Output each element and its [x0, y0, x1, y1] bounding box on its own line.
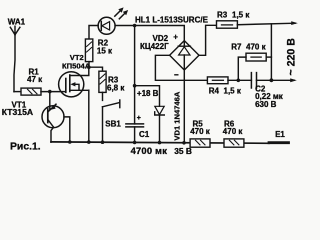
- resistor R4: [207, 77, 228, 84]
- svg-text:E1: E1: [275, 130, 285, 139]
- zener diode VD1: [155, 106, 165, 115]
- svg-text:470 к: 470 к: [223, 127, 244, 136]
- bottom rail: [51, 142, 269, 143]
- svg-text:HL1 L-1513SURC/E: HL1 L-1513SURC/E: [135, 15, 209, 24]
- transistor VT1: [42, 104, 64, 128]
- node R7 left junction dot: [237, 79, 241, 83]
- svg-text:+: +: [173, 32, 178, 41]
- wire top corner to R2: [89, 26, 98, 40]
- wire R3 to SB1: [102, 92, 104, 100]
- wire drain node to R3: [89, 67, 103, 71]
- wire R1 to node A: [41, 91, 66, 93]
- wire VT2 source down to rail: [88, 90, 90, 142]
- svg-text:КП504А: КП504А: [62, 61, 91, 70]
- svg-text:VD1 1N4746A: VD1 1N4746A: [172, 91, 181, 140]
- svg-text:1,5 к: 1,5 к: [232, 11, 250, 20]
- antenna WA1: [10, 26, 20, 91]
- wire zener to rail: [159, 115, 161, 143]
- svg-text:R4: R4: [209, 87, 220, 96]
- electrode E1: [269, 141, 289, 144]
- wire R2 to drain node: [88, 62, 90, 68]
- wire R8 to mains arrow: [237, 23, 295, 25]
- node drain junction dot: [87, 65, 91, 69]
- wire R7 left lead: [238, 57, 246, 80]
- wire antenna to R1: [14, 91, 21, 93]
- transistor VT2: [59, 67, 89, 97]
- svg-text:4700 мк: 4700 мк: [131, 145, 168, 156]
- svg-text:6,8 к: 6,8 к: [107, 83, 125, 92]
- node A junction dot: [48, 90, 52, 94]
- svg-text:470 к: 470 к: [190, 127, 211, 136]
- pushbutton SB1: [103, 100, 120, 108]
- svg-text:SB1: SB1: [105, 119, 121, 128]
- svg-text:~ 220 В: ~ 220 В: [286, 38, 298, 76]
- svg-text:КЦ422Г: КЦ422Г: [140, 42, 169, 51]
- label minus bridge: [175, 74, 178, 76]
- wire +18V node to zener: [135, 86, 160, 107]
- mains arrow top: [291, 21, 298, 25]
- wire bridge minus down to rail: [183, 70, 185, 143]
- svg-text:+18 В: +18 В: [137, 89, 159, 98]
- wire C2 to mains arrow bottom: [257, 79, 295, 81]
- capacitor C1: [126, 124, 144, 127]
- svg-text:C1: C1: [139, 130, 150, 139]
- resistor R2: [85, 39, 92, 62]
- rail junction dots: [68, 140, 186, 144]
- svg-text:R7: R7: [231, 43, 242, 52]
- svg-text:630 В: 630 В: [255, 100, 277, 109]
- wire node A down to VT1 base: [49, 92, 51, 110]
- resistor R5: [190, 139, 210, 147]
- node mains riser junction dot: [270, 78, 274, 82]
- resistor R6: [224, 139, 244, 147]
- wire bridge right to R8: [199, 25, 217, 55]
- capacitor C2: [251, 73, 256, 88]
- wire VT1 emitter to rail: [51, 127, 54, 142]
- svg-text:R3: R3: [217, 11, 228, 20]
- svg-text:Рис.1.: Рис.1.: [10, 141, 41, 152]
- svg-text:15 к: 15 к: [97, 47, 113, 56]
- svg-text:35 В: 35 В: [174, 146, 192, 156]
- wire VT1 right lead to rail: [64, 117, 70, 142]
- wire SB1 to rail: [102, 107, 104, 143]
- svg-text:КТ315А: КТ315А: [2, 107, 33, 117]
- resistor R1: [21, 88, 41, 95]
- svg-text:47 к: 47 к: [27, 75, 43, 84]
- wire C1 to rail: [134, 127, 136, 143]
- svg-text:+: +: [137, 115, 141, 122]
- wire mains riser: [270, 24, 272, 80]
- wire +18V column / C1: [134, 26, 136, 124]
- resistor R8 top: [217, 21, 238, 28]
- wire R4 to C2: [228, 79, 251, 81]
- wire bridge left AC path: [155, 55, 207, 80]
- wire LED to bridge top: [115, 26, 184, 41]
- mains arrow bottom: [290, 78, 297, 82]
- svg-text:470 к: 470 к: [246, 43, 267, 52]
- resistor R7: [246, 53, 266, 61]
- node +18V junction dot: [133, 84, 137, 88]
- svg-text:1,5 к: 1,5 к: [224, 87, 242, 96]
- resistor R3: [99, 71, 106, 92]
- svg-text:WA1: WA1: [8, 18, 26, 27]
- node HL1 right junction dot: [133, 24, 137, 28]
- LED HL1: [98, 7, 128, 34]
- wire R7 right lead: [266, 56, 271, 58]
- bridge rectifier VD2: [170, 41, 199, 70]
